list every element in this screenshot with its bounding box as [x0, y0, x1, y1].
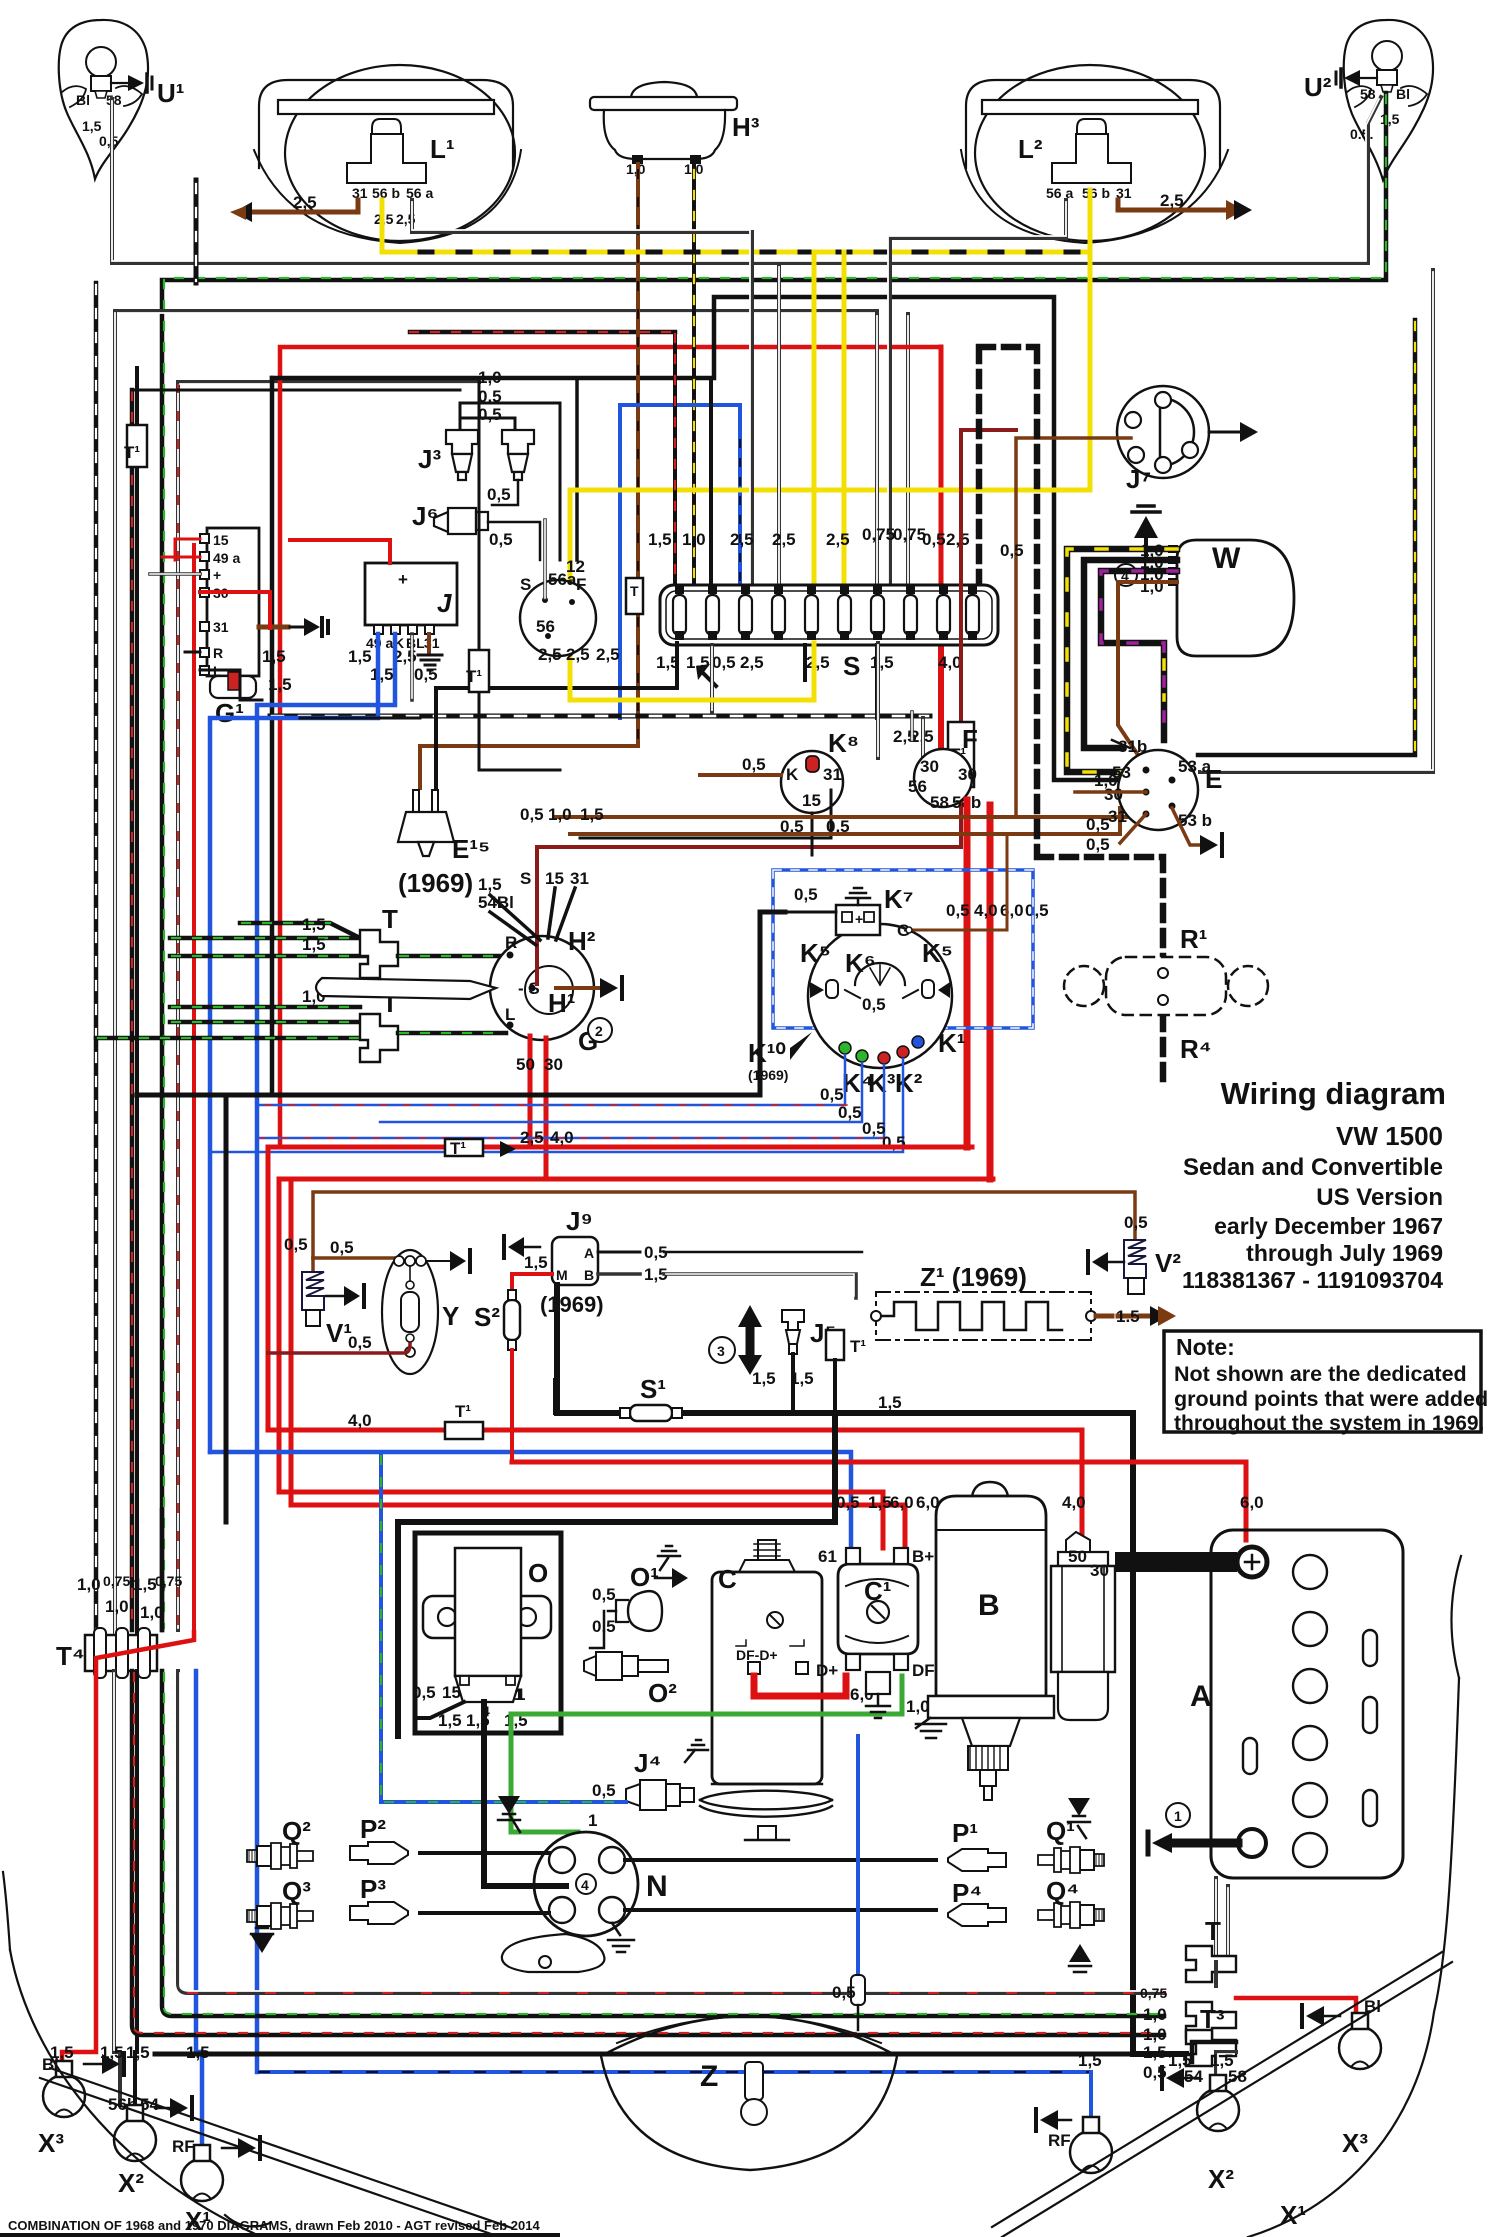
svg-text:15: 15	[545, 869, 564, 888]
svg-text:1,5: 1,5	[262, 647, 286, 666]
svg-text:4: 4	[581, 1877, 589, 1893]
svg-text:Sedan and Convertible: Sedan and Convertible	[1183, 1154, 1443, 1181]
svg-text:4,0: 4,0	[348, 1411, 372, 1430]
svg-text:4,0: 4,0	[974, 901, 998, 920]
svg-text:61: 61	[818, 1547, 837, 1566]
svg-text:1,5: 1,5	[1380, 111, 1400, 127]
svg-text:0,5: 0,5	[330, 1238, 354, 1257]
svg-text:Wiring diagram: Wiring diagram	[1221, 1076, 1446, 1111]
svg-text:0,5: 0,5	[922, 530, 946, 549]
svg-text:2,5: 2,5	[520, 1128, 544, 1147]
svg-text:T¹: T¹	[466, 667, 482, 686]
svg-text:0,5: 0,5	[348, 1333, 372, 1352]
svg-text:J⁴: J⁴	[634, 1748, 661, 1778]
svg-text:0,5: 0,5	[832, 1983, 856, 2002]
svg-text:31: 31	[424, 635, 440, 651]
svg-text:S: S	[520, 869, 531, 888]
svg-text:K⁷: K⁷	[884, 884, 914, 914]
svg-text:0,75: 0,75	[1140, 1985, 1167, 2001]
svg-text:C¹: C¹	[864, 1576, 891, 1606]
svg-text:0,5: 0,5	[794, 885, 818, 904]
svg-text:2,5: 2,5	[730, 530, 754, 549]
svg-text:R⁴: R⁴	[1180, 1034, 1212, 1064]
svg-text:E: E	[1205, 764, 1222, 794]
svg-text:K⁵: K⁵	[922, 938, 953, 968]
svg-text:15: 15	[802, 791, 821, 810]
svg-text:J: J	[437, 588, 452, 618]
svg-text:+: +	[855, 911, 863, 927]
svg-text:6,0: 6,0	[1000, 901, 1024, 920]
svg-text:1: 1	[1174, 1808, 1182, 1824]
svg-text:S¹: S¹	[640, 1374, 666, 1404]
svg-text:K: K	[786, 765, 799, 784]
svg-text:G¹: G¹	[215, 698, 244, 728]
svg-text:X³: X³	[1342, 2128, 1368, 2158]
svg-text:1,5: 1,5	[648, 530, 672, 549]
svg-text:0,5: 0,5	[412, 1683, 436, 1702]
svg-text:0,5: 0,5	[99, 133, 119, 149]
svg-text:T¹: T¹	[450, 1139, 466, 1158]
svg-text:30: 30	[920, 757, 939, 776]
svg-text:1,0: 1,0	[105, 1597, 129, 1616]
svg-text:T¹: T¹	[850, 1337, 866, 1356]
svg-text:0,5: 0,5	[820, 1085, 844, 1104]
svg-text:S: S	[520, 575, 531, 594]
svg-text:1,0: 1,0	[77, 1575, 101, 1594]
svg-text:1: 1	[516, 1685, 525, 1704]
svg-text:4,0: 4,0	[938, 653, 962, 672]
svg-text:0,5: 0,5	[838, 1103, 862, 1122]
svg-text:30: 30	[1090, 1561, 1109, 1580]
svg-text:W: W	[1212, 542, 1241, 575]
svg-text:2,5: 2,5	[772, 530, 796, 549]
svg-text:3: 3	[717, 1343, 725, 1359]
svg-text:X²: X²	[118, 2168, 144, 2198]
svg-text:Q³: Q³	[282, 1876, 311, 1906]
svg-text:L: L	[505, 1005, 515, 1024]
svg-text:15: 15	[213, 532, 229, 548]
svg-text:118381367 - 1191093704: 118381367 - 1191093704	[1182, 1267, 1443, 1293]
svg-text:COMBINATION OF 1968 and 1970 D: COMBINATION OF 1968 and 1970 DIAGRAMS, d…	[8, 2218, 540, 2233]
svg-text:30: 30	[958, 765, 977, 784]
svg-text:T¹: T¹	[455, 1402, 471, 1421]
svg-text:0,5: 0,5	[1086, 835, 1110, 854]
svg-text:4,0: 4,0	[550, 1128, 574, 1147]
svg-text:0,75: 0,75	[155, 1573, 182, 1589]
svg-text:0,5: 0,5	[742, 755, 766, 774]
svg-text:1,0: 1,0	[1143, 2025, 1167, 2044]
svg-text:56 a: 56 a	[1046, 185, 1073, 201]
svg-text:31: 31	[570, 869, 589, 888]
svg-text:0,5: 0,5	[712, 653, 736, 672]
svg-text:Q¹: Q¹	[1046, 1816, 1075, 1846]
svg-text:1,0: 1,0	[626, 161, 646, 177]
svg-text:P²: P²	[360, 1814, 386, 1844]
svg-text:6,0: 6,0	[890, 1493, 914, 1512]
svg-text:1,5: 1,5	[478, 875, 502, 894]
svg-text:0,5: 0,5	[1000, 541, 1024, 560]
svg-text:T: T	[630, 583, 639, 599]
svg-text:S: S	[843, 651, 860, 681]
svg-text:R¹: R¹	[1180, 924, 1207, 954]
svg-text:0,5: 0,5	[1086, 815, 1110, 834]
svg-text:M: M	[556, 1267, 568, 1283]
svg-text:0,5: 0,5	[487, 485, 511, 504]
svg-text:(1969): (1969)	[398, 868, 473, 898]
svg-text:0,5: 0,5	[836, 1493, 860, 1512]
svg-text:P³: P³	[360, 1874, 386, 1904]
svg-text:30: 30	[544, 1055, 563, 1074]
svg-text:K²: K²	[895, 1068, 923, 1098]
svg-text:2,5: 2,5	[826, 530, 850, 549]
svg-text:U²: U²	[1304, 72, 1332, 102]
svg-text:0,5: 0,5	[284, 1235, 308, 1254]
svg-text:1,0: 1,0	[1143, 2005, 1167, 2024]
svg-text:56: 56	[536, 617, 555, 636]
svg-text:0,75: 0,75	[103, 1573, 130, 1589]
svg-text:RF: RF	[1048, 2131, 1071, 2150]
svg-text:L¹: L¹	[430, 134, 455, 164]
svg-text:K⁶: K⁶	[845, 948, 876, 978]
svg-text:0,5: 0,5	[489, 530, 513, 549]
svg-text:B: B	[584, 1267, 594, 1283]
svg-text:D+: D+	[816, 1661, 838, 1680]
svg-text:K¹⁰: K¹⁰	[748, 1038, 786, 1068]
svg-text:1,5: 1,5	[302, 935, 326, 954]
svg-text:US Version: US Version	[1316, 1184, 1443, 1211]
svg-text:1,5: 1,5	[126, 2043, 150, 2062]
svg-text:Z: Z	[700, 2060, 718, 2093]
svg-text:H³: H³	[732, 112, 760, 142]
svg-text:RF: RF	[172, 2137, 195, 2156]
svg-text:2,5: 2,5	[566, 645, 590, 664]
svg-text:2,5: 2,5	[806, 653, 830, 672]
svg-text:N: N	[646, 1870, 668, 1903]
svg-text:1,5: 1,5	[870, 653, 894, 672]
svg-text:2,5: 2,5	[740, 653, 764, 672]
svg-text:31: 31	[1108, 807, 1127, 826]
svg-text:1,5: 1,5	[868, 1493, 892, 1512]
svg-text:0,5: 0,5	[592, 1585, 616, 1604]
svg-text:H²: H²	[568, 926, 596, 956]
svg-text:K⁵: K⁵	[800, 938, 831, 968]
svg-text:1.5: 1.5	[1116, 1307, 1140, 1326]
svg-text:1,5: 1,5	[348, 647, 372, 666]
svg-text:2,5: 2,5	[538, 645, 562, 664]
svg-text:J⁶: J⁶	[412, 501, 438, 531]
svg-text:1,5: 1,5	[524, 1253, 548, 1272]
svg-text:B: B	[978, 1589, 1000, 1622]
svg-text:56: 56	[908, 777, 927, 796]
svg-text:1,0: 1,0	[1140, 577, 1164, 596]
svg-text:31b: 31b	[1118, 737, 1147, 756]
svg-text:49 a: 49 a	[213, 550, 240, 566]
svg-text:58: 58	[1360, 86, 1376, 102]
svg-text:1,5: 1,5	[82, 118, 102, 134]
svg-text:31: 31	[823, 765, 842, 784]
svg-text:K⁸: K⁸	[828, 728, 859, 758]
svg-text:T: T	[1205, 1916, 1221, 1946]
svg-text:1,0: 1,0	[1094, 771, 1118, 790]
svg-text:ground points that were added: ground points that were added	[1174, 1387, 1488, 1411]
svg-text:54: 54	[1184, 2067, 1203, 2086]
svg-text:0,5: 0,5	[478, 405, 502, 424]
svg-text:J³: J³	[418, 444, 441, 474]
svg-text:V²: V²	[1155, 1248, 1181, 1278]
svg-text:56a: 56a	[548, 570, 577, 589]
svg-text:X³: X³	[38, 2128, 64, 2158]
svg-text:A: A	[584, 1245, 594, 1261]
svg-text:1: 1	[588, 1811, 597, 1830]
svg-text:K¹: K¹	[938, 1028, 965, 1058]
svg-text:T³: T³	[1200, 2004, 1225, 2034]
svg-text:+: +	[213, 567, 221, 583]
svg-text:L²: L²	[1018, 134, 1043, 164]
svg-text:0,5: 0,5	[478, 387, 502, 406]
svg-text:1,5: 1,5	[302, 915, 326, 934]
svg-text:0,5: 0,5	[592, 1781, 616, 1800]
svg-text:X²: X²	[1208, 2164, 1234, 2194]
svg-text:1,5: 1,5	[268, 675, 292, 694]
svg-text:Q²: Q²	[282, 1816, 311, 1846]
svg-text:6,0: 6,0	[1240, 1493, 1264, 1512]
svg-text:R: R	[213, 645, 223, 661]
svg-text:C: C	[718, 1564, 737, 1594]
svg-text:0,5: 0,5	[414, 665, 438, 684]
svg-text:T⁴: T⁴	[56, 1641, 85, 1671]
svg-text:F: F	[576, 575, 586, 594]
svg-text:1,0: 1,0	[906, 1697, 930, 1716]
svg-text:DF-D+: DF-D+	[736, 1647, 778, 1663]
svg-text:(1969): (1969)	[748, 1067, 788, 1083]
svg-text:E¹⁵: E¹⁵	[452, 834, 490, 864]
svg-text:50: 50	[516, 1055, 535, 1074]
svg-text:2,5: 2,5	[293, 193, 317, 212]
svg-text:2,5: 2,5	[596, 645, 620, 664]
svg-text:2,5: 2,5	[946, 530, 970, 549]
svg-text:56 b: 56 b	[1082, 185, 1110, 201]
svg-text:Z¹ (1969): Z¹ (1969)	[920, 1262, 1027, 1292]
svg-text:DF: DF	[912, 1661, 935, 1680]
svg-text:through July 1969: through July 1969	[1246, 1240, 1443, 1266]
svg-text:T¹: T¹	[124, 443, 140, 462]
svg-text:0,75: 0,75	[862, 525, 895, 544]
svg-text:56 b: 56 b	[372, 185, 400, 201]
svg-text:throughout the system in 1969.: throughout the system in 1969.	[1174, 1412, 1484, 1435]
svg-text:S²: S²	[474, 1302, 500, 1332]
svg-text:0,5: 0,5	[862, 995, 886, 1014]
svg-text:J⁹: J⁹	[566, 1206, 593, 1236]
svg-text:VW 1500: VW 1500	[1336, 1121, 1443, 1151]
svg-text:1,0: 1,0	[548, 805, 572, 824]
svg-text:O²: O²	[648, 1678, 677, 1708]
svg-text:Bl: Bl	[76, 92, 90, 108]
svg-text:A: A	[1190, 1680, 1212, 1713]
svg-text:J⁷: J⁷	[1126, 464, 1151, 494]
svg-text:O: O	[528, 1558, 548, 1588]
svg-text:(1969): (1969)	[540, 1292, 604, 1317]
svg-text:0,5: 0,5	[1025, 901, 1049, 920]
svg-text:1,5: 1,5	[1078, 2051, 1102, 2070]
svg-text:2,5: 2,5	[1160, 191, 1184, 210]
svg-text:+: +	[398, 570, 408, 589]
svg-text:Y: Y	[442, 1301, 459, 1331]
svg-text:1,0: 1,0	[478, 368, 502, 387]
svg-text:B+: B+	[912, 1547, 934, 1566]
svg-text:58: 58	[930, 793, 949, 812]
svg-text:F: F	[962, 724, 978, 754]
svg-text:P¹: P¹	[952, 1818, 978, 1848]
svg-text:1,5: 1,5	[752, 1369, 776, 1388]
svg-text:P⁴: P⁴	[952, 1878, 982, 1908]
svg-text:1,5: 1,5	[133, 1575, 157, 1594]
svg-text:Q⁴: Q⁴	[1046, 1876, 1079, 1906]
svg-text:U¹: U¹	[157, 78, 184, 108]
svg-text:15: 15	[442, 1683, 461, 1702]
svg-text:K³: K³	[868, 1068, 896, 1098]
svg-text:1,0: 1,0	[682, 530, 706, 549]
svg-text:T: T	[382, 904, 398, 934]
svg-text:R: R	[505, 933, 517, 952]
svg-text:Not shown are the dedicated: Not shown are the dedicated	[1174, 1362, 1467, 1386]
svg-text:1,5: 1,5	[1143, 2043, 1167, 2062]
svg-text:1,5: 1,5	[580, 805, 604, 824]
svg-text:50: 50	[1068, 1547, 1087, 1566]
svg-text:4,0: 4,0	[1062, 1493, 1086, 1512]
svg-text:31: 31	[213, 619, 229, 635]
svg-text:early December 1967: early December 1967	[1214, 1213, 1443, 1239]
svg-text:Note:: Note:	[1176, 1334, 1235, 1360]
svg-text:1,5: 1,5	[370, 665, 394, 684]
svg-text:0,5: 0,5	[1124, 1213, 1148, 1232]
svg-text:H¹: H¹	[548, 988, 575, 1018]
svg-text:25,0: 25,0	[1146, 1553, 1179, 1572]
svg-text:0,5: 0,5	[946, 901, 970, 920]
svg-text:0,5: 0,5	[520, 805, 544, 824]
svg-text:2: 2	[595, 1023, 603, 1039]
svg-text:Bl: Bl	[1396, 86, 1410, 102]
svg-text:1,5: 1,5	[878, 1393, 902, 1412]
